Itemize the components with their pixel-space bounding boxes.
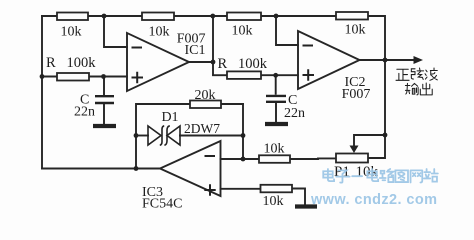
svg-text:22n: 22n (74, 105, 95, 120)
svg-text:D1: D1 (161, 110, 178, 125)
wire D1 row left (136, 135, 148, 137)
watermark line 1: 电子-电路图网站 (drawn glyphs, light blue) (323, 169, 438, 183)
resistor R 100k (IC1) (57, 73, 89, 81)
svg-text:FC54C: FC54C (142, 197, 182, 212)
node IC3 minus (241, 157, 246, 162)
wire to R2 100k (213, 74, 227, 76)
node D1 right (241, 133, 246, 138)
potentiometer P1 body (336, 154, 368, 163)
wire IC1 inverting input drop (104, 16, 127, 47)
op-amp U1 triangle (127, 33, 189, 91)
wire left rail (41, 16, 43, 169)
diode D1 left zener (148, 126, 164, 145)
wire limiter right vertical (242, 104, 244, 159)
glyph shu (405, 83, 418, 94)
svg-text:22n: 22n (284, 106, 305, 121)
wire bottom left (42, 168, 161, 170)
node D1 left (134, 133, 139, 138)
op-amp IC2 plus sign (303, 69, 315, 81)
node IC2 plus (273, 73, 278, 78)
glyph zheng (396, 69, 409, 80)
wire IC1 output vertical (212, 16, 214, 75)
wire 20k left loop (136, 104, 190, 169)
wire P1 left (290, 157, 336, 160)
output arrow (385, 59, 417, 61)
node left rail plus row (40, 74, 45, 79)
svg-text:20k: 20k (195, 88, 216, 103)
node IC3 output (134, 166, 139, 171)
wire top rail (42, 15, 384, 17)
svg-text:F007: F007 (342, 87, 371, 102)
wire IC3 plus row (221, 188, 261, 190)
output text 正弦波 (drawn glyphs) (396, 68, 437, 80)
wire IC1 output (189, 61, 213, 63)
resistor 20k (190, 101, 221, 109)
svg-text:10k: 10k (345, 23, 366, 38)
glyph bo (425, 68, 437, 80)
potentiometer P1 wiper arrow (350, 146, 359, 154)
resistor 10k (top 4, IC2 feedback) (336, 12, 368, 20)
op-amp U2 triangle (298, 31, 360, 89)
resistor 10k (IC3 inverting) (259, 155, 290, 163)
node wiper (383, 133, 388, 138)
node IC1 output (211, 60, 216, 65)
svg-text:www. cndz2. com: www. cndz2. com (310, 192, 437, 208)
svg-text:10k: 10k (263, 194, 284, 209)
wire (89, 76, 127, 78)
capacitor C1 (95, 77, 114, 125)
wire right rail (368, 16, 385, 158)
ground (C2) (265, 122, 288, 126)
resistor 10k (top 2, IC1 feedback) (142, 13, 174, 21)
wire P1 wiper tee (354, 135, 385, 147)
svg-text:10k: 10k (149, 25, 170, 40)
op-amp U3 triangle (points left) (160, 141, 221, 196)
wire IC1 noninverting row (42, 76, 57, 78)
junction node dots (40, 14, 388, 171)
svg-text:10k: 10k (232, 24, 253, 39)
node top-2 (210, 14, 215, 19)
wire IC2 output (360, 59, 386, 61)
glyph chu (420, 83, 432, 95)
svg-text:10k: 10k (264, 142, 285, 157)
op-amp IC2 minus sign (303, 45, 314, 47)
wire IC2 inverting input drop (276, 16, 298, 45)
resistor R 100k (IC2) (227, 71, 261, 79)
ground (C1) (93, 124, 116, 128)
wire D1 row right (180, 135, 243, 137)
wire R2 to IC2 plus (261, 74, 298, 76)
glyph xian (411, 68, 423, 79)
ground (IC3 plus input) (295, 204, 317, 208)
capacitor C2 (266, 75, 286, 122)
resistor 10k (top 3) (227, 13, 261, 21)
op-amp IC3 minus sign (205, 155, 216, 157)
op-amp IC3 plus sign (204, 184, 215, 195)
svg-text:R 100k: R 100k (46, 55, 96, 71)
svg-text:R 100k: R 100k (218, 56, 268, 72)
node top-1 (102, 14, 107, 19)
wire 20k right (221, 103, 243, 105)
output text 输出 (drawn glyphs) (405, 83, 432, 95)
node top-3 (274, 14, 279, 19)
svg-text:10k: 10k (61, 25, 82, 40)
node IC2 output (383, 58, 388, 63)
op-amp IC1 minus sign (132, 47, 143, 49)
wire IC3 plus to ground (292, 189, 305, 205)
resistor 10k (IC3 noninverting) (261, 185, 293, 193)
node IC1 plus (101, 74, 106, 79)
diode D1 right zener (164, 126, 180, 145)
resistor 10k (top 1) (57, 13, 88, 21)
svg-text:2DW7: 2DW7 (184, 121, 220, 136)
op-amp IC1 plus sign (132, 72, 144, 84)
svg-text:IC1: IC1 (185, 43, 206, 58)
wire IC3 inverting row (221, 158, 260, 160)
